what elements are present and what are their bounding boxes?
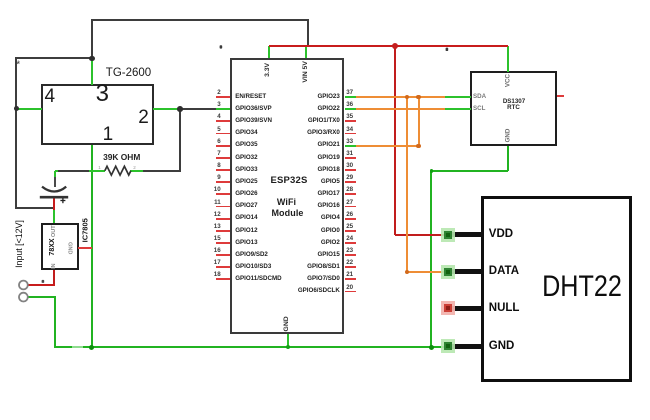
svg-text:*: * [16, 60, 20, 71]
